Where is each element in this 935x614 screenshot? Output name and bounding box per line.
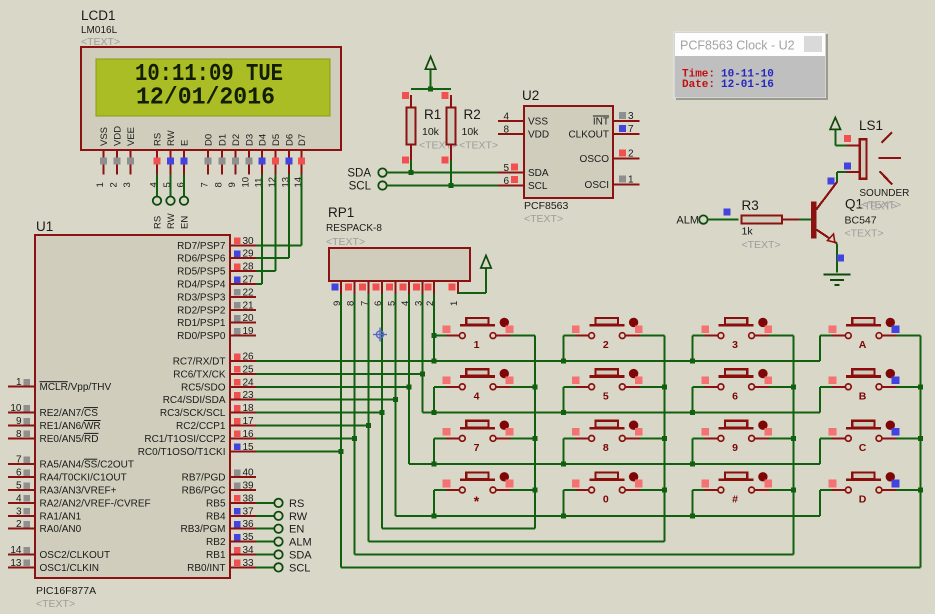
svg-text:20: 20 [243,313,255,324]
svg-text:3: 3 [122,182,133,187]
svg-text:RS: RS [153,216,164,229]
push button # [693,472,794,505]
U1 right pins with numbers and state squares [138,236,256,574]
svg-text:RB5: RB5 [206,498,226,509]
svg-text:RESPACK-8: RESPACK-8 [326,223,382,234]
RTC chip U2 PCF8563 [522,88,613,225]
svg-text:RD6/PSP6: RD6/PSP6 [177,254,226,265]
svg-text:LCD1: LCD1 [81,8,116,23]
svg-text:2: 2 [16,519,22,530]
svg-text:RC6/TX/CK: RC6/TX/CK [173,369,226,380]
svg-text:VDD: VDD [528,129,549,140]
svg-text:VSS: VSS [528,117,548,128]
svg-text:<TEXT>: <TEXT> [845,228,884,240]
wire net RC1 [256,437,355,439]
svg-text:D: D [859,494,867,506]
svg-text:<TEXT>: <TEXT> [326,236,365,248]
svg-text:1: 1 [449,301,460,306]
push button 9 [693,421,794,454]
svg-text:SCL: SCL [528,181,548,192]
terminal SCL at U1 [256,562,310,574]
push button 4 [434,369,535,402]
svg-text:BC547: BC547 [845,215,877,227]
svg-text:ALM: ALM [289,537,312,549]
svg-text:RC2/CCP1: RC2/CCP1 [176,421,226,432]
svg-text:INT: INT [593,117,609,128]
svg-text:OSCI: OSCI [585,180,609,191]
wire keypad column 3 vertical [791,336,796,555]
svg-text:R2: R2 [464,107,481,122]
svg-text:34: 34 [243,545,255,556]
terminal ALM at U1 [256,537,312,549]
svg-text:6: 6 [16,468,22,479]
svg-text:RE0/AN5/RD: RE0/AN5/RD [40,434,99,445]
svg-text:40: 40 [243,468,255,479]
wire Q1 collector to LS1 [828,162,852,184]
svg-text:SDA: SDA [528,168,549,179]
wire keypad column 4 vertical [918,336,923,568]
svg-text:2: 2 [603,339,609,351]
wire net RC2 [256,425,368,427]
svg-text:RA1/AN1: RA1/AN1 [40,511,82,522]
svg-text:R3: R3 [742,198,759,213]
svg-text:RB3/PGM: RB3/PGM [180,524,225,535]
svg-text:RD0/PSP0: RD0/PSP0 [177,331,226,342]
svg-text:4: 4 [16,493,22,504]
terminal EN at U1 [256,524,304,536]
wire RP1 pin2 to RC7 row and keypad row 1 riser [432,294,437,364]
wire LCD D4 to U1 RD4 [256,175,262,285]
wire RP1 pin7 to RC2 row down to column 2 return [366,294,371,542]
wire RP1 pin6 to RC3 row down to column 1 return [379,294,384,529]
wire keypad row 2 net [422,412,820,414]
svg-text:RC4/SDI/SDA: RC4/SDI/SDA [163,395,226,406]
push button C [820,421,920,454]
power symbol VCC at LS1 [830,118,847,146]
wire RP1 pin5 to RC4 row down to keypad row 4 [393,294,398,516]
svg-text:RD2/PSP2: RD2/PSP2 [177,305,226,316]
svg-text:D3: D3 [244,134,255,146]
svg-text:RD4/PSP4: RD4/PSP4 [177,280,226,291]
U2 right pins 3 7 2 1 [568,111,639,191]
svg-text:10: 10 [240,177,251,188]
wire net RC6 [256,373,422,375]
svg-text:16: 16 [243,429,255,440]
svg-text:PCF8563 Clock - U2: PCF8563 Clock - U2 [680,39,795,53]
terminal SDA left [347,168,386,180]
svg-text:RA4/T0CKI/C1OUT: RA4/T0CKI/C1OUT [40,473,127,484]
svg-text:2: 2 [109,182,120,187]
svg-text:E: E [180,140,191,146]
svg-text:RB4: RB4 [206,511,226,522]
svg-text:15: 15 [243,442,255,453]
svg-text:RC3/SCK/SCL: RC3/SCK/SCL [160,408,226,419]
svg-text:13: 13 [10,558,22,569]
svg-text:1: 1 [474,339,480,351]
svg-text:<TEXT>: <TEXT> [742,239,781,251]
wire RP1 pin3 to RC6 row down to keypad row 2 [420,294,425,413]
svg-text:35: 35 [243,532,255,543]
push button 0 [563,472,664,505]
svg-text:C: C [859,442,867,454]
svg-text:5: 5 [503,163,509,174]
svg-text:CLKOUT: CLKOUT [568,129,609,140]
svg-text:3: 3 [732,339,738,351]
wire keypad column 2 vertical [662,336,667,542]
svg-text:18: 18 [243,403,255,414]
svg-text:5: 5 [16,481,22,492]
svg-text:9: 9 [732,442,738,454]
LCD1 pins 1-14 with state squares and rotated labels [95,126,308,188]
svg-text:1k: 1k [742,226,754,238]
svg-text:LM016L: LM016L [81,25,118,36]
LCD display LCD1 LM016L [81,8,341,150]
svg-text:RD5/PSP5: RD5/PSP5 [177,267,226,278]
svg-text:LS1: LS1 [859,118,883,133]
svg-text:SCL: SCL [349,181,372,193]
terminal SCL left [349,181,387,193]
push button * [434,472,535,509]
svg-text:D0: D0 [204,134,215,146]
U2 left pins 4 8 5 6 [498,112,549,193]
svg-text:9: 9 [16,416,22,427]
svg-text:10: 10 [10,403,22,414]
push button 6 [693,369,794,402]
power symbol VCC above R1 R2 [411,57,451,92]
svg-text:PCF8563: PCF8563 [524,200,569,212]
svg-text:RW: RW [289,511,308,523]
svg-text:39: 39 [243,481,255,492]
svg-text:RC7/RX/DT: RC7/RX/DT [173,357,226,368]
push button 7 [434,421,535,454]
svg-text:SDA: SDA [347,168,371,180]
resistor R2 10k [441,92,498,163]
svg-text:RD1/PSP1: RD1/PSP1 [177,318,226,329]
svg-text:RP1: RP1 [328,205,354,220]
wire keypad column 2 bottom return [368,541,664,543]
svg-text:26: 26 [243,352,255,363]
svg-text:8: 8 [603,442,609,454]
svg-text:OSC1/CLKIN: OSC1/CLKIN [40,563,99,574]
origin marker crosshair [373,328,387,342]
svg-text:30: 30 [243,236,255,247]
svg-text:<TEXT>: <TEXT> [862,199,901,211]
svg-text:23: 23 [243,390,255,401]
terminal RW at U1 [256,511,308,523]
wire RP1 pin9 to RC0 row down to column 4 return [339,294,344,567]
svg-text:RA2/AN2/VREF-/CVREF: RA2/AN2/VREF-/CVREF [40,498,151,509]
svg-text:RD7/PSP7: RD7/PSP7 [177,241,226,252]
svg-text:*: * [474,493,480,509]
svg-text:OSC2/CLKOUT: OSC2/CLKOUT [40,550,111,561]
svg-text:EN: EN [289,524,304,536]
push button 3 [693,318,794,351]
svg-text:RA0/AN0: RA0/AN0 [40,524,82,535]
svg-text:RC1/T1OSI/CCP2: RC1/T1OSI/CCP2 [144,434,226,445]
terminal EN under LCD pin6 [180,175,191,230]
svg-text:8: 8 [213,182,224,187]
svg-text:29: 29 [243,249,255,260]
svg-text:SDA: SDA [289,550,312,562]
terminal RS at U1 [256,498,304,510]
svg-text:#: # [732,494,738,506]
ground symbol at Q1 emitter [824,275,851,286]
popup window PCF8563 Clock - U2 [674,32,828,100]
wire keypad row 4 net [395,515,820,517]
svg-text:37: 37 [243,506,255,517]
wire keypad row 3 net [409,463,820,465]
keypad row riser wires [432,336,821,519]
svg-text:Date:: Date: [682,79,715,91]
svg-text:10k: 10k [462,126,480,138]
svg-text:6: 6 [503,176,509,187]
svg-text:38: 38 [243,493,255,504]
svg-text:B: B [859,390,867,402]
svg-text:<TEXT>: <TEXT> [36,598,75,609]
svg-text:OSCO: OSCO [580,154,610,165]
svg-text:RW: RW [166,130,177,146]
svg-text:33: 33 [243,558,255,569]
wire net RC7 keypad row 1 [256,360,820,362]
svg-text:U2: U2 [522,88,539,103]
wire keypad column 1 bottom return [382,528,535,530]
svg-text:VEE: VEE [126,127,137,146]
svg-text:RB0/INT: RB0/INT [187,563,225,574]
svg-text:0: 0 [603,494,609,506]
svg-text:7: 7 [474,442,480,454]
svg-text:RB1: RB1 [206,550,226,561]
svg-text:U1: U1 [36,219,53,234]
svg-text:VDD: VDD [113,126,124,146]
svg-text:4: 4 [474,390,480,402]
svg-text:RS: RS [289,498,304,510]
svg-text:D5: D5 [271,134,282,146]
svg-text:7: 7 [628,124,634,135]
wire net SCL [387,160,498,188]
svg-text:14: 14 [10,545,22,556]
svg-text:RD3/PSP3: RD3/PSP3 [177,292,226,303]
svg-text:RS: RS [153,133,164,146]
svg-text:25: 25 [243,364,255,375]
resistor pack RP1 RESPACK-8 [326,205,470,281]
sounder LS1 [844,118,910,211]
push button A [820,318,920,351]
svg-text:RC0/T1OSO/T1CKI: RC0/T1OSO/T1CKI [138,447,226,458]
svg-text:<TEXT>: <TEXT> [524,213,563,225]
svg-text:SCL: SCL [289,562,310,574]
svg-text:RB6/PGC: RB6/PGC [182,486,226,497]
svg-text:D2: D2 [231,134,242,146]
svg-text:D4: D4 [258,134,269,146]
svg-text:RA3/AN3/VREF+: RA3/AN3/VREF+ [40,486,117,497]
push button 2 [563,318,664,351]
wire RP1 pin8 to RC1 row down to column 3 return [352,294,357,555]
svg-text:24: 24 [243,377,255,388]
svg-text:VSS: VSS [99,127,110,146]
wire LCD D7 to U1 RD7 [256,175,302,246]
push button 1 [434,318,535,351]
svg-text:RE1/AN6/WR: RE1/AN6/WR [40,421,101,432]
wire net RC3 [256,412,382,414]
svg-text:8: 8 [16,429,22,440]
terminal RW under LCD pin5 [166,175,177,230]
svg-text:RB7/PGD: RB7/PGD [182,473,226,484]
svg-text:EN: EN [180,216,191,229]
push button 8 [563,421,664,454]
push button D [820,472,920,505]
svg-text:D1: D1 [217,134,228,146]
svg-text:PIC16F877A: PIC16F877A [36,585,96,597]
terminal ALM [676,215,707,227]
wire keypad column 1 vertical [533,336,538,529]
svg-text:8: 8 [503,124,509,135]
svg-text:1: 1 [628,175,634,186]
wire ALM to R3 [708,209,739,220]
svg-text:RC5/SDO: RC5/SDO [181,382,226,393]
push button 5 [563,369,664,402]
svg-text:17: 17 [243,416,255,427]
resistor R1 10k [402,92,458,163]
svg-text:27: 27 [243,275,255,286]
wire keypad column 3 bottom return [355,554,794,556]
svg-text:3: 3 [16,506,22,517]
wire keypad column 4 bottom return [341,566,920,568]
wire net RC0 [256,450,341,452]
svg-text:RE2/AN7/CS: RE2/AN7/CS [40,408,99,419]
svg-text:RW: RW [166,213,177,229]
wire net SDA [387,160,498,175]
wire net RC4 [256,399,395,401]
svg-text:1: 1 [95,182,106,187]
svg-text:4: 4 [503,112,509,123]
svg-text:ALM: ALM [676,215,699,227]
svg-text:12/01/2016: 12/01/2016 [136,85,275,112]
terminal RS under LCD pin4 [153,175,164,230]
transistor Q1 BC547 [811,182,897,244]
svg-text:21: 21 [243,300,255,311]
svg-text:5: 5 [603,390,609,402]
svg-text:SOUNDER: SOUNDER [859,188,909,199]
svg-text:7: 7 [200,182,211,187]
svg-text:D7: D7 [297,134,308,146]
svg-text:2: 2 [628,149,634,160]
terminal SDA at U1 [256,550,312,562]
wire Q1 emitter to ground [837,244,844,273]
svg-text:10k: 10k [422,126,440,138]
svg-text:D6: D6 [285,134,296,146]
svg-text:9: 9 [227,182,238,187]
svg-text:28: 28 [243,262,255,273]
wire net RC5 [256,386,409,388]
svg-text:36: 36 [243,519,255,530]
wire R3 to Q1 base [799,219,811,221]
resistor R3 1k [741,198,799,251]
svg-text:MCLR/Vpp/THV: MCLR/Vpp/THV [40,382,112,393]
push button B [820,369,920,402]
U1 left pins with numbers and gray state squares [8,377,151,574]
svg-text:A: A [859,339,867,351]
power symbol VCC at RP1 pin1 [458,256,491,294]
svg-text:R1: R1 [424,107,441,122]
svg-text:RA5/AN4/SS/C2OUT: RA5/AN4/SS/C2OUT [40,460,134,471]
svg-text:19: 19 [243,326,255,337]
microcontroller U1 PIC16F877A [35,219,230,610]
wire LCD D6 to U1 RD6 [256,175,289,259]
RP1 pins 9..2 and pin 1 with squares [332,281,460,306]
wire LCD D5 to U1 RD5 [256,175,276,272]
svg-text:7: 7 [16,455,22,466]
svg-text:12-01-16: 12-01-16 [721,79,774,91]
svg-text:22: 22 [243,287,255,298]
svg-text:1: 1 [16,377,22,388]
svg-text:<TEXT>: <TEXT> [459,140,498,152]
svg-text:RB2: RB2 [206,537,226,548]
svg-text:6: 6 [732,390,738,402]
svg-text:3: 3 [628,111,634,122]
wire RP1 pin4 to RC5 row down to keypad row 3 [406,294,411,464]
